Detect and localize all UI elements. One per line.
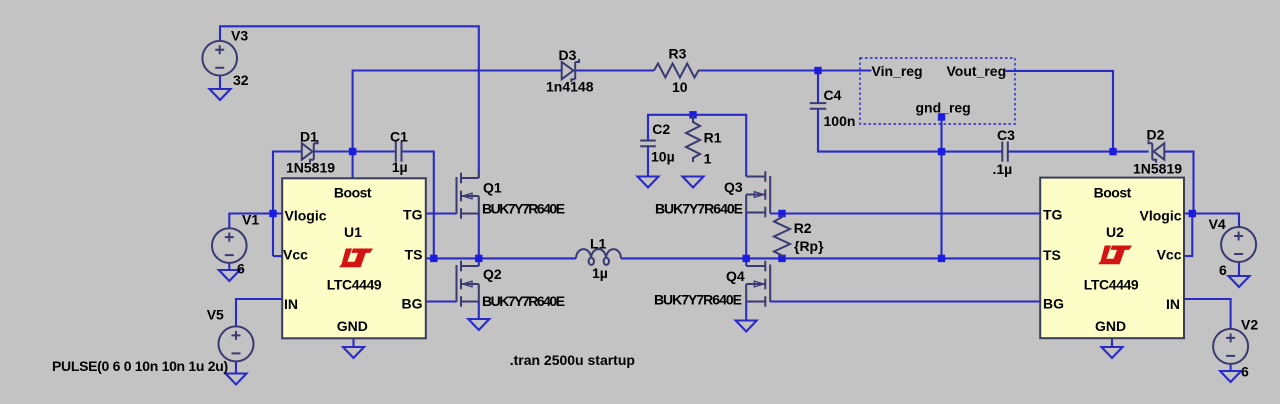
VOLTAGE SOURCES (202, 41, 1256, 364)
op-amp U1 LTC4449 block body (282, 178, 426, 338)
wire D1 to C1 (314, 150, 396, 152)
voltage source V4 (1221, 227, 1256, 262)
transistor Q3 BUK7Y7R640E (746, 171, 770, 217)
svg-text:BG: BG (402, 296, 423, 312)
wire Q2 source to ground (478, 302, 480, 320)
wire V1 ground stub (228, 263, 230, 270)
svg-text:V1: V1 (242, 212, 259, 228)
svg-text:10: 10 (672, 79, 688, 95)
wire D3 to R3 (576, 69, 654, 71)
svg-text:.tran 2500u startup: .tran 2500u startup (510, 352, 635, 368)
svg-text:1: 1 (704, 151, 712, 167)
svg-text:C4: C4 (824, 87, 842, 103)
svg-text:Boost: Boost (334, 184, 372, 200)
ground V3 (210, 89, 231, 100)
svg-text:6: 6 (1241, 363, 1249, 379)
node Q3/Q4 switch node (743, 255, 750, 262)
svg-text:R2: R2 (794, 220, 812, 236)
svg-text:Q3: Q3 (724, 179, 743, 195)
wire Q4 drain lead (745, 258, 747, 266)
wire C1 to TS column (402, 152, 434, 259)
wire C3 to U2 boost junction (1008, 151, 1113, 153)
voltage source V5 (219, 326, 254, 361)
svg-text:V2: V2 (1241, 316, 1258, 332)
wire V5 to U1 IN (236, 299, 282, 326)
node U2 Vlogic/V4 junction (1189, 210, 1196, 217)
node gnd_reg/C4 rail junction (938, 148, 945, 155)
wire V3 ground stub (219, 76, 221, 90)
svg-text:Vcc: Vcc (1157, 246, 1182, 262)
diode D2 1N5819 (1149, 140, 1165, 162)
voltage source V2 (1213, 329, 1248, 364)
capacitor C3 (1002, 142, 1008, 162)
ground C2 (638, 177, 659, 188)
wire Q3 gate to U2 TG rail (770, 212, 1040, 214)
wire V2 ground stub (1230, 364, 1232, 371)
ground R1 (683, 177, 704, 188)
U2 BLOCK PIN TEXT (1043, 184, 1182, 334)
node R2/TS junction (778, 255, 785, 262)
LT logo U2 (1098, 246, 1132, 265)
svg-text:TG: TG (1043, 207, 1063, 223)
svg-text:1µ: 1µ (392, 159, 408, 175)
svg-text:V5: V5 (207, 306, 224, 322)
svg-text:C3: C3 (997, 127, 1015, 143)
svg-text:PULSE(0 6 0 10n 10n 1u 2u): PULSE(0 6 0 10n 10n 1u 2u) (52, 358, 228, 374)
wire V1 to U1 Vlogic (229, 214, 282, 229)
GROUND SYMBOLS (210, 89, 1250, 385)
svg-text:1µ: 1µ (592, 265, 608, 281)
node R3/C4 junction (814, 67, 821, 74)
svg-text:BUK7Y7R640E: BUK7Y7R640E (482, 201, 565, 217)
svg-text:C1: C1 (390, 128, 408, 144)
wire C4 top lead (817, 71, 819, 104)
svg-text:{Rp}: {Rp} (794, 238, 824, 254)
svg-text:BUK7Y7R640E: BUK7Y7R640E (482, 293, 565, 309)
svg-text:Boost: Boost (1094, 184, 1132, 200)
svg-text:R1: R1 (704, 129, 722, 145)
voltage source V3 (202, 41, 237, 76)
wire U1 GND stub (352, 338, 354, 347)
resistor R3 (654, 64, 701, 78)
svg-text:GND: GND (1095, 318, 1126, 334)
node Vout_reg/D2 boost junction (1109, 148, 1116, 155)
svg-text:C2: C2 (652, 121, 670, 137)
svg-text:6: 6 (237, 261, 245, 277)
svg-text:V4: V4 (1209, 216, 1226, 232)
capacitor C4 (810, 103, 826, 109)
ground V2 (1220, 371, 1241, 382)
wire U1 BG to Q2 gate (426, 300, 457, 302)
node V1/Vlogic junction (269, 210, 276, 217)
svg-text:IN: IN (1166, 296, 1180, 312)
svg-text:1N5819: 1N5819 (286, 159, 335, 175)
svg-text:gnd_reg: gnd_reg (916, 100, 971, 116)
svg-text:.1µ: .1µ (993, 161, 1013, 177)
wire C2 R1 rail to Q3 drain (648, 115, 746, 177)
svg-text:IN: IN (284, 296, 298, 312)
transistor Q2 BUK7Y7R640E (457, 261, 479, 307)
svg-text:L1: L1 (590, 235, 607, 251)
resistor R1 (686, 115, 700, 162)
op-amp U2 LTC4449 block body (1040, 178, 1184, 339)
diode D1 1N5819 (302, 140, 318, 162)
wire V4 ground stub (1238, 262, 1240, 276)
wire Q2 drain lead (478, 258, 480, 266)
wire D2 to Vlogic column (1164, 152, 1193, 214)
svg-text:V3: V3 (231, 27, 248, 43)
wire C4 bottom to C3 rail (818, 109, 1002, 152)
DIODES (302, 59, 1165, 163)
svg-text:TS: TS (1043, 247, 1061, 263)
RESISTORS (654, 64, 790, 258)
wire Q4 source to ground (745, 302, 747, 321)
voltage source V1 (212, 228, 247, 263)
svg-text:U1: U1 (344, 224, 362, 240)
svg-text:TG: TG (403, 207, 423, 223)
node C1/TS junction (430, 255, 437, 262)
svg-text:1N5819: 1N5819 (1133, 160, 1182, 176)
svg-text:BUK7Y7R640E: BUK7Y7R640E (655, 201, 743, 217)
LT logo U1 (339, 249, 373, 268)
diode D3 1n4148 (562, 59, 579, 82)
svg-text:Vin_reg: Vin_reg (872, 63, 923, 79)
node Q1/Q2 switch node (475, 255, 482, 262)
wire U2 Vlogic row to V4 (1184, 214, 1239, 227)
svg-text:D2: D2 (1147, 127, 1165, 143)
wire U2 boost junction to D2 (1113, 151, 1149, 153)
svg-text:Vcc: Vcc (283, 246, 308, 262)
svg-text:BG: BG (1043, 296, 1064, 312)
ground V1 (219, 270, 240, 281)
capacitor C1 (396, 141, 402, 161)
svg-text:10µ: 10µ (651, 148, 675, 164)
svg-text:D3: D3 (559, 47, 577, 63)
wire gnd_reg vertical (940, 117, 942, 258)
ground Q4 (736, 321, 757, 332)
wire L1 to U2 TS rail (621, 257, 1040, 259)
svg-text:R3: R3 (669, 46, 687, 62)
wire Vlogic column to D1 (273, 152, 302, 257)
node D1/C1/Boost junction (349, 148, 356, 155)
svg-text:Q2: Q2 (483, 266, 502, 282)
svg-text:100n: 100n (824, 113, 856, 129)
capacitor C2 (640, 141, 656, 147)
svg-text:TS: TS (405, 247, 423, 263)
svg-text:Q1: Q1 (483, 180, 502, 196)
wire Vcc pin stub U1 (273, 255, 282, 257)
svg-text:LTC4449: LTC4449 (327, 276, 382, 292)
ground V4 (1229, 276, 1250, 287)
CAPACITORS (396, 103, 1008, 162)
transistor Q4 BUK7Y7R640E (746, 261, 770, 307)
wire Vout_reg to U2 boost node (1005, 71, 1113, 152)
wire U1 TS to L1 (426, 257, 576, 259)
svg-text:Vlogic: Vlogic (1139, 207, 1181, 223)
wire Q1 source lead (478, 214, 480, 259)
wire Boost node U1 to D3 (353, 71, 562, 179)
resistor R2 (774, 215, 790, 257)
node gnd_reg/TS junction (938, 255, 945, 262)
transistor Q1 BUK7Y7R640E (457, 171, 479, 219)
node gnd_reg stub (938, 113, 945, 120)
U1 BLOCK PIN TEXT (283, 184, 423, 334)
svg-text:32: 32 (233, 72, 249, 88)
inductor L1 (576, 249, 621, 265)
wire U2 GND stub (1111, 338, 1113, 347)
ground U1 GND (343, 347, 364, 358)
wire Q3 source lead (745, 213, 747, 259)
node Q3 gate/R2 junction (778, 210, 785, 217)
svg-text:U2: U2 (1106, 224, 1124, 240)
node C2/R1 junction (689, 111, 696, 118)
ground V5 (226, 374, 247, 385)
svg-text:Vlogic: Vlogic (285, 207, 327, 223)
ground U2 GND (1102, 347, 1123, 358)
ground Q2 (468, 319, 489, 330)
svg-text:BUK7Y7R640E: BUK7Y7R640E (654, 292, 742, 308)
wire U2 Vcc branch (1184, 214, 1192, 257)
wire V5 ground stub (235, 362, 237, 374)
svg-text:Vout_reg: Vout_reg (947, 63, 1007, 79)
MOSFETS (457, 171, 771, 307)
wire V2 to U2 IN (1184, 299, 1231, 329)
wire U1 TG to Q1 gate (426, 212, 457, 214)
svg-text:LTC4449: LTC4449 (1084, 276, 1139, 292)
svg-text:GND: GND (337, 318, 368, 334)
svg-text:D1: D1 (300, 128, 318, 144)
svg-text:6: 6 (1219, 262, 1227, 278)
wire R3 to Vin_reg (701, 69, 871, 71)
wire C2 bottom lead (647, 147, 649, 177)
svg-text:1n4148: 1n4148 (546, 79, 594, 95)
svg-text:Q4: Q4 (726, 268, 745, 284)
wire Q4 gate to U2 BG rail (770, 300, 1040, 302)
dashed regulator box (860, 58, 1015, 124)
wire V3 top rail to Q1 drain (220, 26, 479, 178)
